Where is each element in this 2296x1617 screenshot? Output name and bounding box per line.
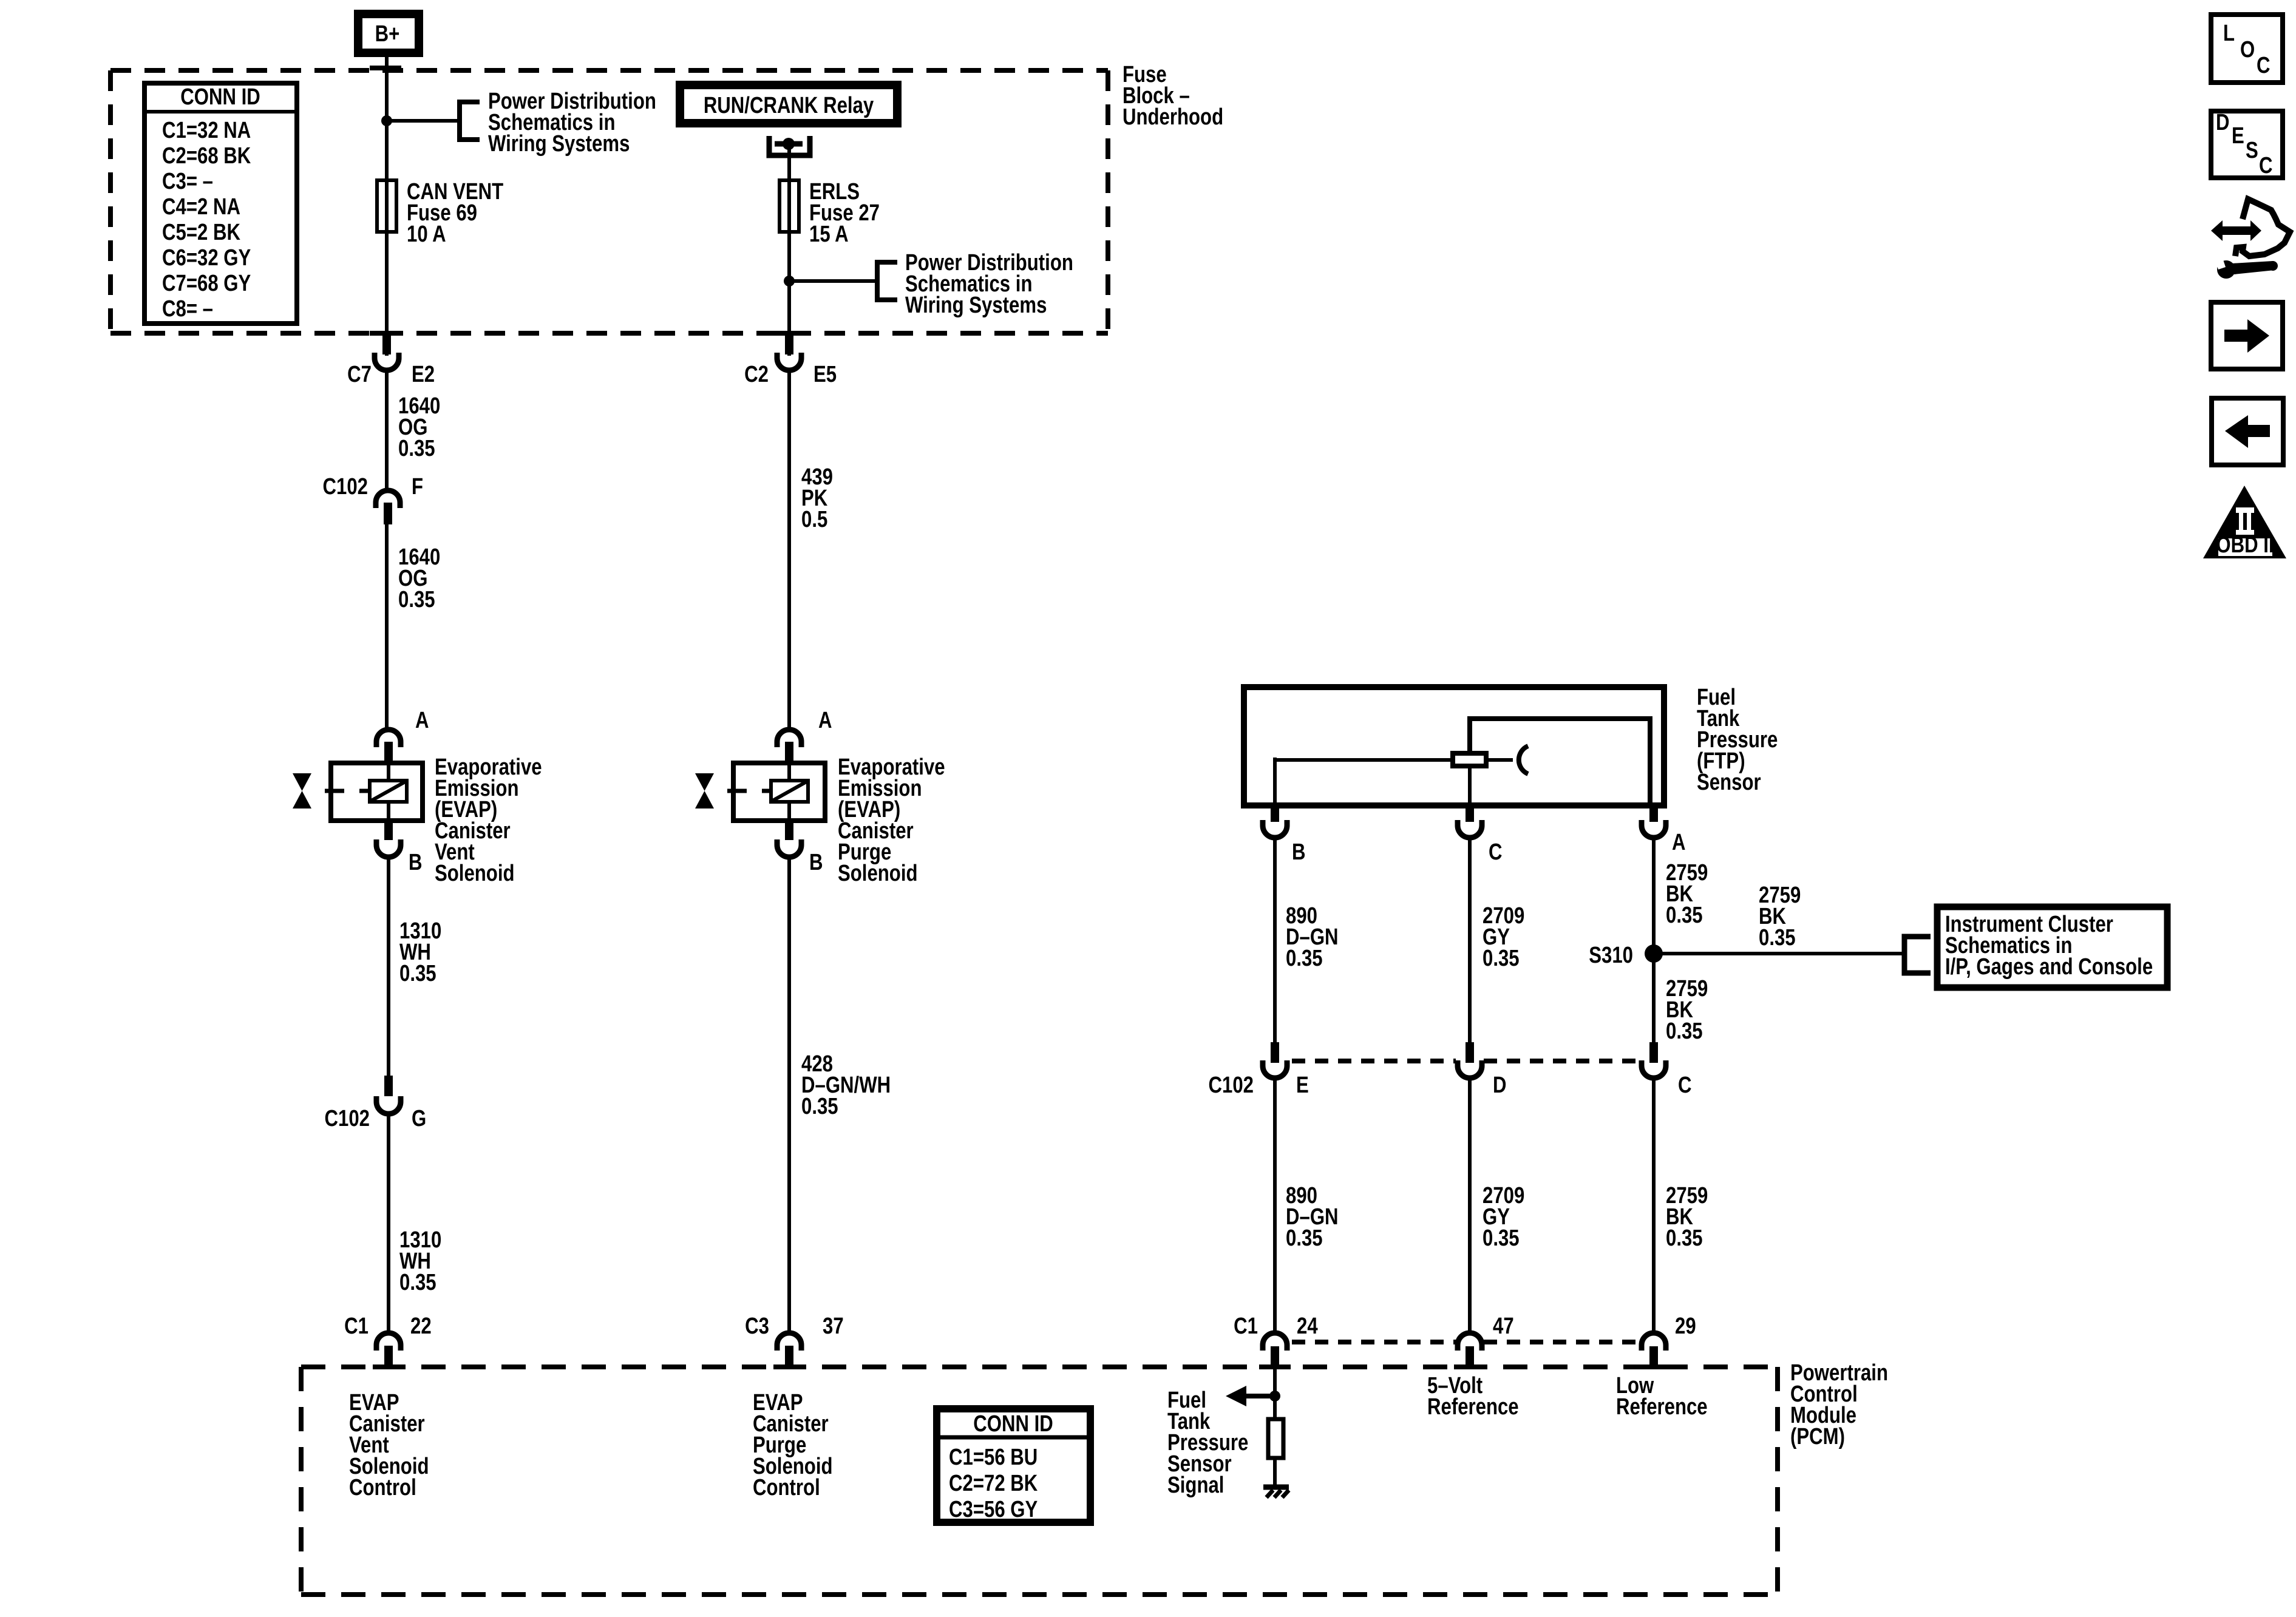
svg-text:C2: C2	[744, 362, 769, 387]
wire label 1640 OG 0.35 (upper)	[398, 393, 440, 461]
wire label 1310 WH 0.35 (upper)	[399, 918, 441, 986]
svg-text:0.35: 0.35	[1483, 1225, 1520, 1251]
svg-text:C: C	[1489, 839, 1503, 865]
wire resistor to ground	[1273, 1458, 1277, 1486]
svg-text:Control: Control	[753, 1475, 820, 1500]
wire label 2759 BK 0.35 (splice branch)	[1759, 883, 1801, 951]
svg-text:22: 22	[410, 1314, 432, 1339]
svg-text:C102: C102	[323, 474, 368, 500]
connector pin A of FTP sensor (stub and cup)	[1642, 808, 1666, 838]
svg-text:G: G	[412, 1106, 426, 1131]
svg-text:Wiring Systems: Wiring Systems	[488, 131, 630, 157]
svg-text:S310: S310	[1589, 943, 1633, 968]
svg-text:Wiring Systems: Wiring Systems	[905, 293, 1047, 318]
dashed tie line C102 row	[1292, 1059, 1639, 1063]
connector C102 / E (stub and cup)	[1263, 1042, 1287, 1078]
svg-text:0.35: 0.35	[1286, 1225, 1323, 1251]
ground symbol	[1263, 1487, 1289, 1497]
wire C102 G to PCM C1	[387, 1116, 390, 1332]
svg-text:L: L	[2223, 21, 2235, 46]
svg-text:C4=2 NA: C4=2 NA	[162, 194, 240, 220]
net label EVAP canister vent solenoid control	[349, 1390, 429, 1500]
svg-text:D: D	[1493, 1073, 1507, 1098]
svg-text:C1: C1	[344, 1314, 369, 1339]
svg-text:E5: E5	[813, 362, 837, 387]
connector C102 / D (stub and cup)	[1458, 1042, 1482, 1078]
wire junction to reference bracket 2	[789, 279, 877, 283]
svg-text:Underhood: Underhood	[1123, 104, 1223, 130]
svg-text:C2=72 BK: C2=72 BK	[949, 1471, 1038, 1496]
signal arrow (fuel tank pressure sensor signal)	[1226, 1386, 1275, 1406]
svg-text:0.35: 0.35	[398, 436, 435, 461]
connector C1 / 47 into PCM (cap and stub)	[1454, 1333, 1486, 1369]
wire C7 to C102 F	[385, 372, 389, 489]
svg-text:C102: C102	[325, 1106, 370, 1131]
svg-text:0.35: 0.35	[399, 1270, 436, 1295]
icon DESC box	[2211, 110, 2283, 178]
svg-text:E: E	[2232, 123, 2244, 149]
wire solenoid B to C102 G	[387, 859, 390, 1078]
connector C2 / E5 (stub and cup)	[777, 333, 801, 370]
node junction signal	[1269, 1391, 1280, 1402]
svg-text:S: S	[2246, 138, 2258, 163]
svg-text:OBD II: OBD II	[2216, 532, 2274, 558]
svg-text:D: D	[2216, 110, 2230, 135]
note text power distribution 2	[905, 250, 1073, 318]
fuse F27 ERLS	[779, 180, 799, 232]
wire C102 C to PCM 29	[1652, 1080, 1656, 1332]
wire label 890 D-GN 0.35 (upper)	[1286, 903, 1339, 971]
relay RUN/CRANK Relay box	[680, 85, 897, 123]
wire label 2709 GY 0.35 (lower)	[1483, 1183, 1524, 1251]
svg-text:A: A	[415, 708, 429, 733]
connector C102 / F (cap and stub)	[376, 490, 400, 524]
FTP sensor label	[1697, 685, 1778, 795]
net label EVAP canister purge solenoid control	[753, 1390, 833, 1500]
svg-text:Sensor: Sensor	[1697, 770, 1761, 795]
svg-text:0.35: 0.35	[1666, 1225, 1703, 1251]
wide dash where ERLS wire crosses fuse block bottom border	[772, 331, 804, 336]
splice S310 junction dot	[1645, 944, 1663, 963]
svg-text:15 A: 15 A	[809, 222, 849, 247]
reference bracket power distribution 1	[460, 102, 480, 140]
svg-text:(PCM): (PCM)	[1790, 1424, 1845, 1449]
connector C1 / 24 into PCM (cap and stub)	[1259, 1333, 1291, 1369]
svg-text:C: C	[1678, 1073, 1692, 1098]
svg-text:Reference: Reference	[1616, 1394, 1708, 1420]
wide dash where wire crosses fuse block top border	[370, 66, 401, 70]
svg-text:C1=32 NA: C1=32 NA	[162, 118, 251, 143]
resistor PCM pull resistor	[1268, 1419, 1283, 1458]
svg-text:B: B	[1292, 839, 1306, 865]
connector C102 / G (stub and cup)	[376, 1076, 401, 1114]
svg-text:Control: Control	[349, 1475, 416, 1500]
note box instrument cluster	[1937, 907, 2167, 988]
wire label 1310 WH 0.35 (lower)	[399, 1227, 441, 1295]
connector pin B of FTP sensor (stub and cup)	[1263, 808, 1287, 838]
connector C1 / 22 into PCM (cap and stub)	[373, 1333, 404, 1369]
solenoid label vent	[435, 754, 542, 886]
wire C102 D to PCM 47	[1468, 1080, 1472, 1332]
wire FTP C to C102 D	[1468, 840, 1472, 1044]
relay output pin symbol	[769, 136, 810, 155]
reference bracket instrument cluster	[1904, 937, 1931, 973]
svg-text:E: E	[1296, 1073, 1309, 1098]
connector pin C of FTP sensor (stub and cup)	[1458, 808, 1482, 838]
svg-text:0.35: 0.35	[398, 587, 435, 612]
wire relay to ERLS fuse	[787, 144, 791, 180]
fuse F27 value label	[809, 179, 880, 247]
svg-text:B: B	[409, 850, 423, 875]
svg-text:0.35: 0.35	[801, 1094, 838, 1119]
svg-text:0.35: 0.35	[1666, 903, 1703, 928]
svg-text:Solenoid: Solenoid	[435, 861, 515, 886]
svg-text:0.35: 0.35	[1759, 925, 1796, 951]
svg-text:Reference: Reference	[1427, 1394, 1519, 1420]
reference bracket power distribution 2	[877, 262, 897, 300]
node junction on B+ feed	[381, 115, 392, 126]
connector pin A of purge solenoid	[777, 730, 801, 762]
svg-text:I/P, Gages and Console: I/P, Gages and Console	[1945, 954, 2153, 980]
svg-text:A: A	[818, 708, 832, 733]
icon harness routing (outline, double arrow, wrench)	[2211, 199, 2290, 279]
svg-text:C102: C102	[1209, 1073, 1254, 1098]
connector pin B of vent solenoid (stub and cup)	[376, 821, 401, 857]
svg-text:B: B	[809, 850, 823, 875]
CONN ID table (fuse block)	[144, 83, 297, 324]
sensor FTP Fuel Tank Pressure box	[1244, 687, 1664, 805]
connector C1 / 29 into PCM (cap and stub)	[1638, 1333, 1669, 1369]
svg-text:0.35: 0.35	[1286, 946, 1323, 971]
wire FTP A to S310	[1652, 840, 1656, 1044]
wire FTP B to C102 E	[1273, 840, 1277, 1044]
wide dash where wire crosses fuse block bottom border	[370, 331, 401, 336]
svg-text:Solenoid: Solenoid	[838, 861, 918, 886]
wire S310 to instrument cluster bracket	[1654, 952, 1904, 955]
wire label 890 D-GN 0.35 (lower)	[1286, 1183, 1339, 1251]
CONN ID table (PCM)	[937, 1409, 1090, 1522]
icon OBD II triangle	[2203, 486, 2286, 558]
connector C102 / C (stub and cup)	[1642, 1042, 1666, 1078]
svg-text:0.35: 0.35	[1483, 946, 1520, 971]
icon LOC box	[2211, 15, 2283, 83]
solenoid EVAP canister vent (outer box, coil, valve)	[293, 763, 423, 821]
svg-text:E2: E2	[412, 362, 435, 387]
svg-text:24: 24	[1297, 1314, 1318, 1339]
svg-text:C3= –: C3= –	[162, 169, 213, 194]
svg-text:RUN/CRANK Relay: RUN/CRANK Relay	[704, 93, 874, 118]
wire fuse 69 to connector C7	[385, 232, 389, 356]
svg-text:C7=68 GY: C7=68 GY	[162, 271, 251, 296]
svg-text:C3: C3	[745, 1314, 769, 1339]
svg-text:0.35: 0.35	[1666, 1019, 1703, 1044]
svg-text:CONN ID: CONN ID	[973, 1411, 1053, 1437]
svg-text:C7: C7	[347, 362, 372, 387]
dotted tie line C1 row	[1292, 1340, 1639, 1344]
svg-text:C3=56 GY: C3=56 GY	[949, 1497, 1038, 1522]
node junction on ERLS feed	[784, 276, 795, 286]
svg-text:0.5: 0.5	[801, 507, 827, 532]
svg-text:CONN ID: CONN ID	[180, 84, 260, 110]
fuse block Fuse Block - Underhood dashed box	[110, 70, 1108, 333]
svg-text:C2=68 BK: C2=68 BK	[162, 143, 251, 169]
solenoid label purge	[838, 754, 945, 886]
svg-text:10 A: 10 A	[407, 222, 446, 247]
icon forward arrow box	[2211, 302, 2283, 369]
note text power distribution 1	[488, 89, 656, 157]
svg-text:C5=2 BK: C5=2 BK	[162, 220, 240, 245]
wire label 2759 BK 0.35 (above S310)	[1666, 860, 1708, 928]
svg-text:C1: C1	[1234, 1314, 1258, 1339]
svg-text:C8= –: C8= –	[162, 296, 213, 322]
module PCM Powertrain Control Module dashed box	[301, 1367, 1778, 1595]
svg-text:C1=56 BU: C1=56 BU	[949, 1445, 1038, 1470]
svg-text:B+: B+	[375, 21, 400, 47]
svg-text:A: A	[1672, 830, 1686, 855]
icon back arrow box	[2212, 398, 2283, 465]
svg-text:C6=32 GY: C6=32 GY	[162, 245, 251, 271]
connector C7 / E2 (stub and cup)	[375, 333, 399, 370]
svg-text:29: 29	[1675, 1314, 1696, 1339]
wire label 2759 BK 0.35 (lower)	[1666, 1183, 1708, 1251]
fuse block label text	[1123, 62, 1223, 130]
svg-text:O: O	[2240, 37, 2255, 63]
wire purge solenoid B to PCM C3	[787, 859, 791, 1332]
connector pin A of vent solenoid	[376, 730, 401, 762]
svg-text:37: 37	[823, 1314, 844, 1339]
net label fuel tank pressure sensor signal	[1167, 1388, 1248, 1498]
net label low reference	[1616, 1373, 1708, 1420]
wire B+ to CAN VENT fuse	[385, 57, 389, 180]
FTP sensor internal potentiometer network	[1275, 716, 1650, 805]
wire label 428 D-GN/WH 0.35	[801, 1051, 891, 1119]
wire PCM 24 internal to signal node	[1273, 1368, 1277, 1419]
svg-text:Signal: Signal	[1167, 1473, 1224, 1498]
svg-text:C: C	[2259, 153, 2273, 178]
wire label 2709 GY 0.35 (upper)	[1483, 903, 1524, 971]
wire C102 E to PCM 24	[1273, 1080, 1277, 1332]
wire label 1640 OG 0.35 (lower)	[398, 544, 440, 612]
net label 5-volt reference	[1427, 1373, 1519, 1420]
solenoid EVAP canister purge (outer box, coil, valve)	[695, 763, 825, 821]
wire junction to reference bracket	[387, 119, 460, 123]
wire label 2759 BK 0.35 (below S310)	[1666, 976, 1708, 1044]
svg-text:47: 47	[1493, 1314, 1514, 1339]
wire C102 F to solenoid A	[385, 524, 389, 729]
svg-text:C: C	[2257, 53, 2271, 78]
fuse F69 value label	[407, 179, 503, 247]
connector C3 / 37 into PCM (cap and stub)	[773, 1333, 805, 1369]
battery terminal B+	[358, 14, 419, 53]
wire fuse 27 to connector C2	[787, 232, 791, 356]
wire label 439 PK 0.5	[801, 464, 833, 532]
module label PCM	[1790, 1360, 1888, 1449]
svg-text:F: F	[412, 474, 423, 500]
fuse F69 CAN VENT	[377, 180, 396, 232]
connector pin B of purge solenoid (stub and cup)	[777, 821, 801, 857]
wire C2 to solenoid A (purge)	[787, 372, 791, 728]
svg-text:0.35: 0.35	[399, 961, 436, 986]
